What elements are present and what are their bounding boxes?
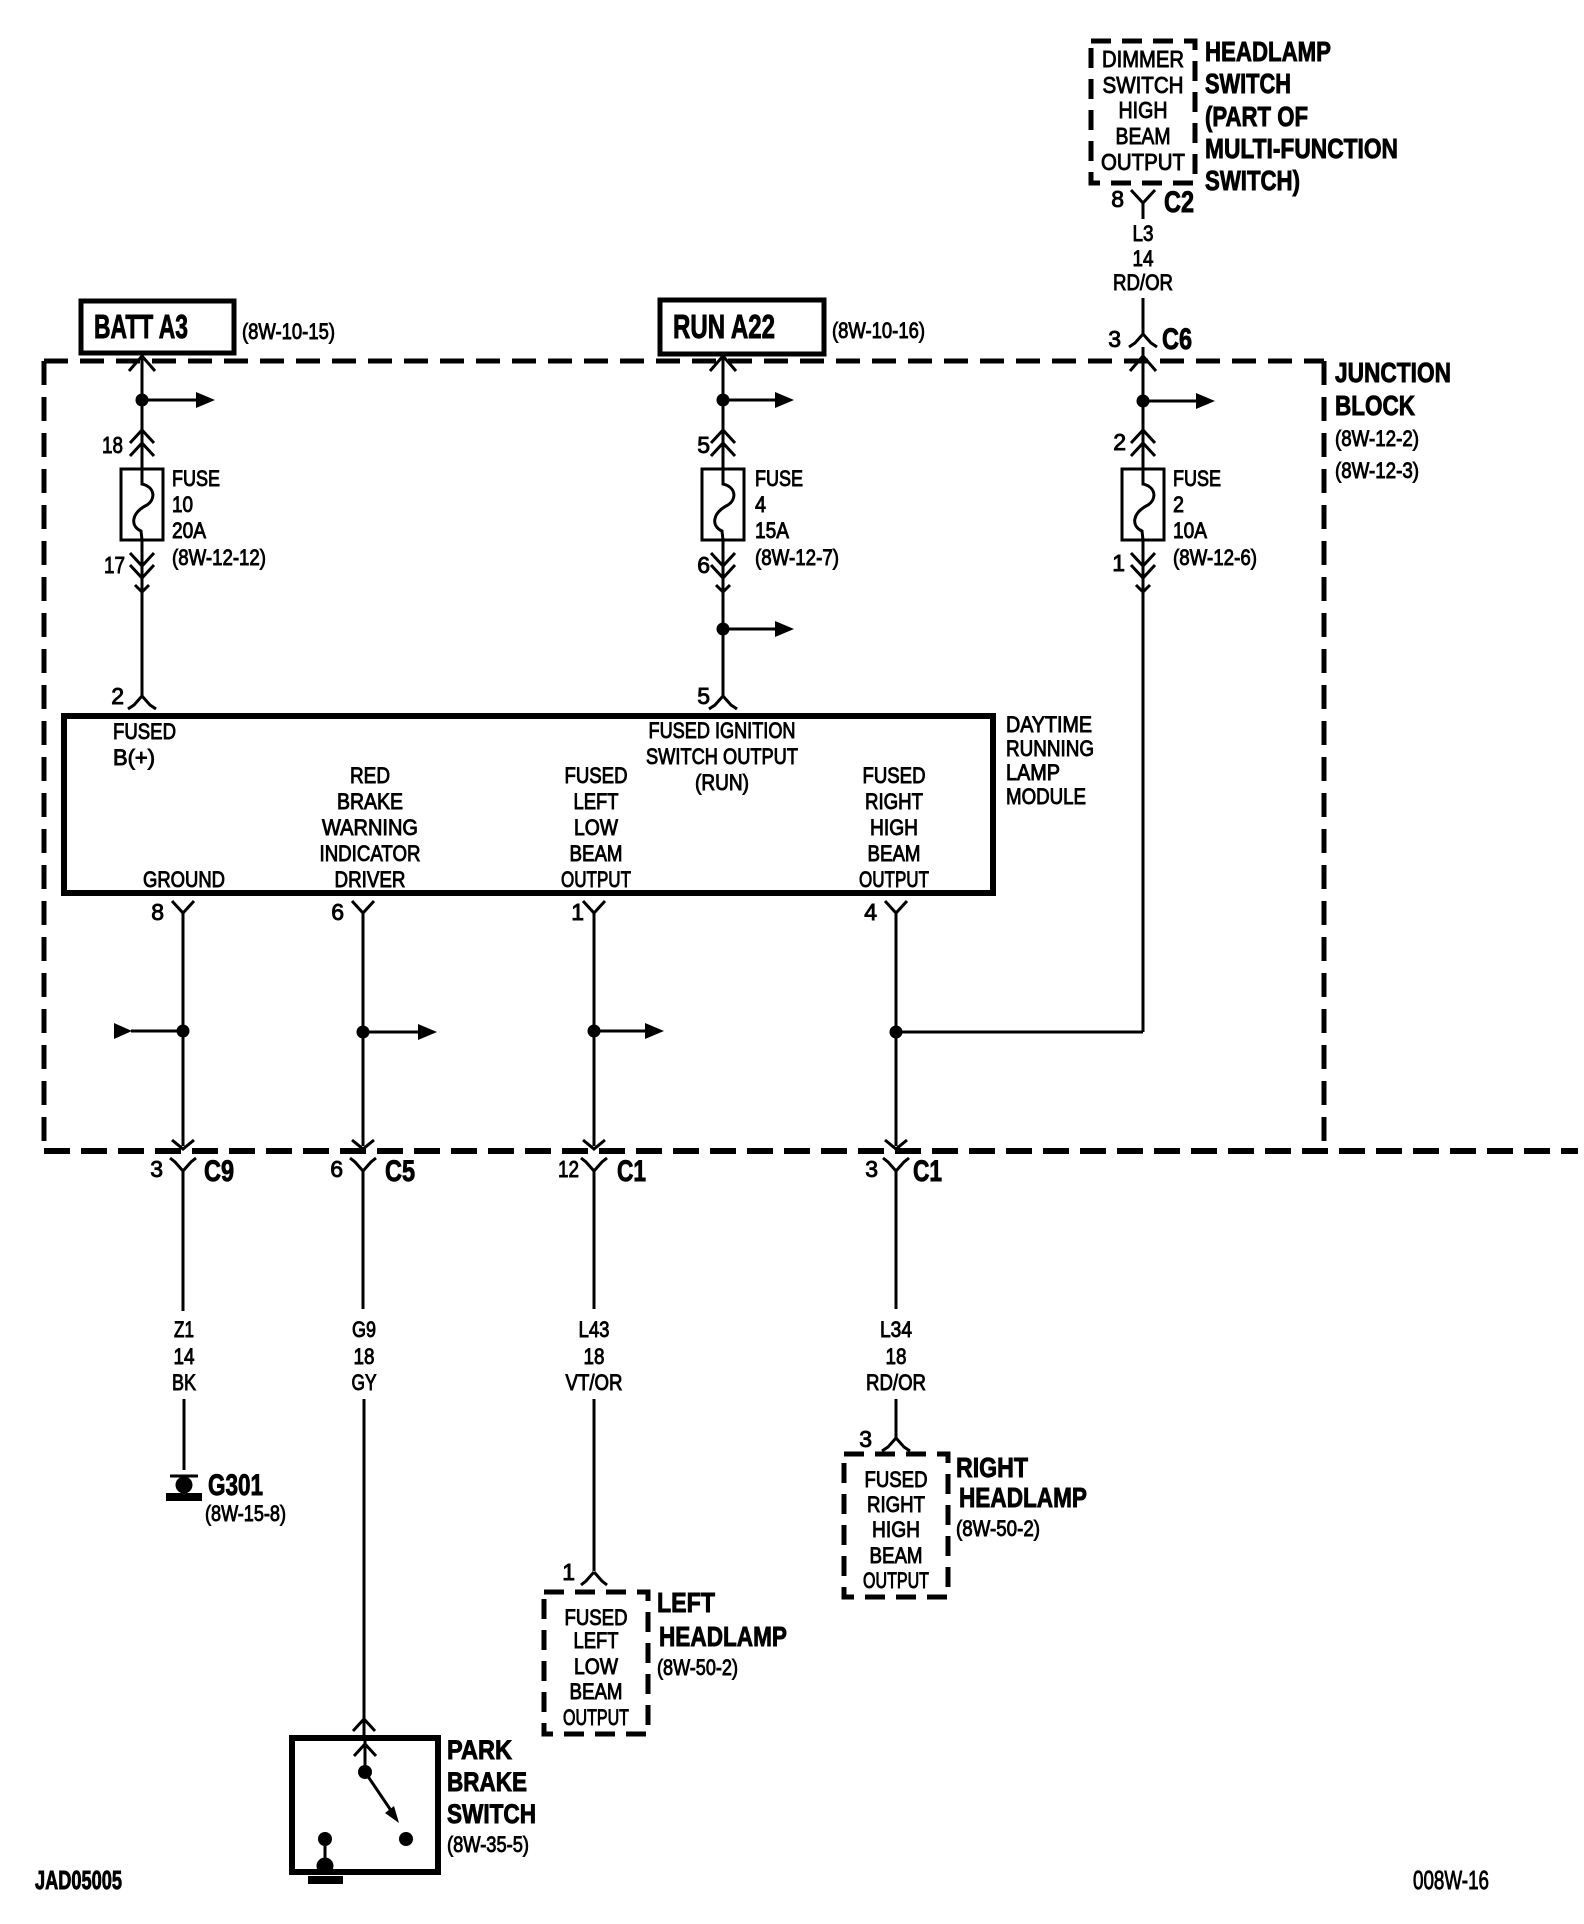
connector marks pin 17 <box>130 553 154 566</box>
pin 5 connector at module <box>709 696 723 709</box>
svg-text:10: 10 <box>172 492 193 517</box>
park brake switch ground bar <box>308 1876 343 1884</box>
svg-text:RD/OR: RD/OR <box>1113 270 1173 295</box>
svg-text:RIGHT: RIGHT <box>865 789 923 814</box>
svg-text:INDICATOR: INDICATOR <box>320 841 421 866</box>
svg-text:C9: C9 <box>204 1155 234 1188</box>
arrow into C6 at border <box>1130 356 1156 371</box>
svg-text:(8W-12-2): (8W-12-2) <box>1335 426 1419 451</box>
svg-text:4: 4 <box>755 492 766 517</box>
svg-text:C1: C1 <box>617 1155 646 1188</box>
svg-text:SWITCH): SWITCH) <box>1205 165 1300 196</box>
connector marks fuse 2 pin 1 <box>1131 553 1155 566</box>
svg-text:Z1: Z1 <box>174 1317 194 1342</box>
branch arrow right from RUN node <box>723 399 777 402</box>
junction block bottom border <box>44 1148 1578 1154</box>
wire module pin 8 to C9 <box>182 913 185 1146</box>
svg-text:BRAKE: BRAKE <box>447 1767 527 1797</box>
branch arrow right from BATT node <box>142 399 198 402</box>
connector box BATT A3 <box>81 301 234 353</box>
arrow into BATT A3 at border <box>129 356 155 371</box>
svg-text:VT/OR: VT/OR <box>566 1370 623 1395</box>
svg-text:C2: C2 <box>1164 186 1194 219</box>
component box fused left low beam output <box>544 1592 648 1734</box>
node left low beam branch junction <box>588 1025 601 1038</box>
pin 8 connector at module <box>172 901 194 913</box>
wire L43 to left headlamp <box>593 1399 596 1571</box>
wire fuse 4 to DRL module pin 5 <box>722 541 725 696</box>
node RUN branch junction <box>717 394 730 407</box>
fuse 4 15A <box>702 469 744 540</box>
svg-text:(RUN): (RUN) <box>695 770 749 795</box>
svg-text:15A: 15A <box>755 518 789 543</box>
svg-text:SWITCH: SWITCH <box>447 1799 536 1829</box>
svg-text:OUTPUT: OUTPUT <box>863 1568 929 1593</box>
connector C6 <box>1142 322 1145 334</box>
svg-text:BEAM: BEAM <box>870 1543 923 1568</box>
svg-text:G301: G301 <box>208 1469 263 1502</box>
svg-text:18: 18 <box>354 1344 375 1369</box>
svg-text:BATT A3: BATT A3 <box>94 308 188 345</box>
svg-text:1: 1 <box>562 1559 575 1585</box>
svg-text:L43: L43 <box>579 1317 610 1342</box>
arrow at border to C1 right <box>885 1140 907 1149</box>
svg-text:MULTI-FUNCTION: MULTI-FUNCTION <box>1205 133 1398 164</box>
wire L34 to right headlamp <box>895 1399 898 1430</box>
wire C1 to L34 label <box>895 1200 898 1309</box>
svg-text:SWITCH: SWITCH <box>1205 68 1291 99</box>
svg-text:HEADLAMP: HEADLAMP <box>1205 36 1331 67</box>
fuse 2 10A <box>1122 469 1164 540</box>
svg-text:B(+): B(+) <box>113 745 155 770</box>
svg-text:18: 18 <box>584 1344 605 1369</box>
node brake driver branch junction <box>357 1026 370 1039</box>
svg-text:6: 6 <box>697 552 710 578</box>
wire module pin 4 to C1 <box>895 913 898 1146</box>
svg-text:LEFT: LEFT <box>574 789 619 814</box>
park brake switch arm <box>365 1772 392 1812</box>
svg-text:8: 8 <box>151 899 164 925</box>
connector at park brake switch <box>353 1719 375 1731</box>
svg-text:BEAM: BEAM <box>1116 123 1171 149</box>
svg-text:LEFT: LEFT <box>657 1587 715 1618</box>
component box dimmer switch high beam output <box>1091 41 1195 183</box>
branch arrow right from C6 node <box>1143 400 1198 403</box>
svg-text:FUSE: FUSE <box>755 466 803 491</box>
svg-text:HIGH: HIGH <box>872 1517 920 1542</box>
wire C6 to fuse 2 <box>1142 347 1145 470</box>
connector at left headlamp <box>581 1572 594 1585</box>
branch arrow into ground node <box>131 1030 183 1033</box>
svg-text:2: 2 <box>1113 429 1126 455</box>
wire module pin 1 to C1 <box>593 913 596 1146</box>
svg-text:(PART OF: (PART OF <box>1205 101 1308 132</box>
wire fuse 2 down right side <box>1142 541 1145 1032</box>
svg-text:C6: C6 <box>1162 323 1192 356</box>
svg-text:008W-16: 008W-16 <box>1413 1865 1489 1895</box>
svg-text:(8W-12-3): (8W-12-3) <box>1335 458 1419 483</box>
svg-text:BLOCK: BLOCK <box>1335 390 1415 421</box>
svg-text:(8W-12-7): (8W-12-7) <box>755 545 839 570</box>
svg-text:SWITCH OUTPUT: SWITCH OUTPUT <box>646 744 798 769</box>
arrow at border to C9 <box>172 1140 194 1149</box>
svg-text:20A: 20A <box>172 518 206 543</box>
svg-text:BEAM: BEAM <box>570 841 623 866</box>
ground G301 <box>170 1475 198 1478</box>
svg-text:FUSED: FUSED <box>565 1605 628 1630</box>
node right high beam junction <box>890 1026 903 1039</box>
svg-text:1: 1 <box>1112 550 1125 576</box>
park brake switch contact left <box>318 1832 332 1846</box>
svg-text:BK: BK <box>172 1370 196 1395</box>
svg-text:HIGH: HIGH <box>870 815 918 840</box>
connector marks pin 18 <box>130 430 154 443</box>
svg-text:2: 2 <box>111 683 124 709</box>
svg-text:17: 17 <box>104 552 125 578</box>
connector C5 <box>350 1158 363 1171</box>
svg-text:14: 14 <box>174 1344 195 1369</box>
svg-text:2: 2 <box>1173 492 1184 517</box>
branch arrow right from brake node <box>363 1031 420 1034</box>
svg-text:5: 5 <box>697 683 710 709</box>
node ground branch junction <box>177 1025 190 1038</box>
svg-text:(8W-50-2): (8W-50-2) <box>956 1516 1040 1541</box>
wire module pin 6 to C5 <box>362 913 365 1146</box>
svg-text:3: 3 <box>150 1156 163 1182</box>
wire C1 to L43 label <box>593 1200 596 1309</box>
svg-text:BRAKE: BRAKE <box>337 789 403 814</box>
connector at right headlamp <box>895 1430 898 1438</box>
svg-text:18: 18 <box>886 1344 907 1369</box>
connector C2 <box>1131 190 1155 203</box>
svg-text:1: 1 <box>571 899 584 925</box>
svg-text:LOW: LOW <box>574 1654 618 1679</box>
svg-text:(8W-35-5): (8W-35-5) <box>447 1832 529 1857</box>
svg-text:C1: C1 <box>913 1155 942 1188</box>
component box fused right high beam output <box>844 1454 948 1597</box>
svg-text:FUSE: FUSE <box>1173 466 1221 491</box>
svg-text:MODULE: MODULE <box>1006 784 1086 809</box>
svg-text:DAYTIME: DAYTIME <box>1006 712 1092 737</box>
park brake switch ground stem <box>324 1839 327 1862</box>
svg-text:(8W-10-16): (8W-10-16) <box>832 318 925 343</box>
connector marks pin 5 <box>711 430 735 443</box>
svg-text:HEADLAMP: HEADLAMP <box>959 1482 1087 1513</box>
svg-text:FUSED: FUSED <box>113 719 176 744</box>
svg-text:FUSED: FUSED <box>863 763 926 788</box>
svg-text:(8W-12-6): (8W-12-6) <box>1173 545 1257 570</box>
wire Z1 to ground G301 <box>183 1399 186 1470</box>
svg-text:3: 3 <box>859 1426 872 1452</box>
svg-text:FUSED: FUSED <box>865 1467 928 1492</box>
svg-text:OUTPUT: OUTPUT <box>563 1705 629 1730</box>
svg-text:RIGHT: RIGHT <box>956 1452 1028 1483</box>
svg-text:LOW: LOW <box>574 815 618 840</box>
connector marks pin 6 <box>711 553 735 566</box>
wire C5 to G9 label <box>362 1200 365 1309</box>
arrow into RUN A22 at border <box>710 356 736 371</box>
svg-text:RED: RED <box>350 763 390 788</box>
svg-text:5: 5 <box>697 432 710 458</box>
svg-text:GROUND: GROUND <box>143 867 225 892</box>
arrow at border to C1 <box>583 1140 605 1149</box>
svg-text:G9: G9 <box>352 1317 376 1342</box>
wire fuse 10 to DRL module pin 2 <box>141 541 144 696</box>
svg-text:C5: C5 <box>385 1155 415 1188</box>
svg-text:LAMP: LAMP <box>1006 760 1060 785</box>
node BATT branch junction <box>136 394 149 407</box>
fuse 10 20A <box>121 469 163 540</box>
pin 4 connector at module <box>885 901 907 913</box>
junction block left border <box>42 361 47 1151</box>
svg-text:6: 6 <box>330 1156 343 1182</box>
svg-text:10A: 10A <box>1173 518 1207 543</box>
connector marks fuse 2 pin 2 <box>1131 430 1155 443</box>
svg-text:3: 3 <box>865 1156 878 1182</box>
svg-text:HIGH: HIGH <box>1119 97 1168 123</box>
svg-text:PARK: PARK <box>447 1735 512 1765</box>
svg-text:WARNING: WARNING <box>322 815 418 840</box>
branch arrow right from RUN output node <box>723 628 777 631</box>
wire G9 to park brake switch <box>363 1399 366 1736</box>
pin 2 connector at module <box>128 696 142 709</box>
wire RUN A22 to fuse 4 <box>722 354 725 470</box>
wire fuse 2 across to module pin 4 node <box>896 1031 1143 1034</box>
park brake switch internal connector <box>364 1741 367 1766</box>
branch arrow right from left low beam node <box>594 1030 647 1033</box>
connector box RUN A22 <box>660 300 824 354</box>
connector C9 <box>170 1158 183 1171</box>
park brake switch box <box>292 1738 438 1872</box>
svg-text:14: 14 <box>1133 246 1154 271</box>
svg-text:12: 12 <box>558 1156 579 1182</box>
svg-text:(8W-10-15): (8W-10-15) <box>242 319 335 344</box>
svg-text:(8W-12-12): (8W-12-12) <box>172 545 266 570</box>
svg-text:HEADLAMP: HEADLAMP <box>659 1621 787 1652</box>
park brake switch contact right <box>399 1832 413 1846</box>
svg-text:JUNCTION: JUNCTION <box>1335 357 1451 388</box>
node C6 branch junction <box>1137 395 1150 408</box>
svg-text:OUTPUT: OUTPUT <box>859 867 929 892</box>
svg-text:RUN A22: RUN A22 <box>673 308 775 345</box>
connector C1 right <box>883 1158 896 1171</box>
svg-text:RD/OR: RD/OR <box>866 1370 926 1395</box>
svg-text:FUSE: FUSE <box>172 466 220 491</box>
junction block top border <box>44 359 1324 364</box>
wire BATT A3 to fuse 10 <box>141 353 144 470</box>
svg-text:RUNNING: RUNNING <box>1006 736 1094 761</box>
svg-text:BEAM: BEAM <box>570 1679 623 1704</box>
svg-text:3: 3 <box>1108 326 1121 352</box>
svg-text:SWITCH: SWITCH <box>1103 72 1184 98</box>
svg-text:BEAM: BEAM <box>868 841 921 866</box>
DRL module box <box>64 716 993 893</box>
svg-text:8: 8 <box>1111 186 1124 212</box>
junction block right border <box>1322 361 1327 1151</box>
svg-text:RIGHT: RIGHT <box>867 1492 925 1517</box>
svg-text:OUTPUT: OUTPUT <box>1101 149 1185 175</box>
svg-text:DRIVER: DRIVER <box>335 867 406 892</box>
node RUN output branch junction <box>717 623 730 636</box>
svg-text:DIMMER: DIMMER <box>1102 46 1184 72</box>
park brake switch common contact <box>358 1765 372 1779</box>
svg-text:(8W-50-2): (8W-50-2) <box>657 1655 738 1680</box>
svg-text:18: 18 <box>102 432 123 458</box>
svg-text:FUSED IGNITION: FUSED IGNITION <box>649 718 796 743</box>
svg-text:GY: GY <box>352 1370 377 1395</box>
svg-text:L3: L3 <box>1133 221 1154 246</box>
svg-text:6: 6 <box>331 899 344 925</box>
wire C9 to Z1 label <box>182 1200 185 1311</box>
svg-text:(8W-15-8): (8W-15-8) <box>205 1501 286 1526</box>
connector C1 left <box>581 1158 594 1171</box>
svg-text:OUTPUT: OUTPUT <box>561 867 631 892</box>
svg-text:FUSED: FUSED <box>565 763 628 788</box>
pin 1 connector at module <box>583 901 605 913</box>
arrow at border to C5 <box>352 1140 374 1149</box>
svg-text:4: 4 <box>864 899 877 925</box>
svg-text:LEFT: LEFT <box>574 1628 619 1653</box>
svg-text:L34: L34 <box>880 1317 912 1342</box>
svg-text:JAD05005: JAD05005 <box>35 1865 122 1895</box>
pin 6 connector at module <box>352 901 374 913</box>
